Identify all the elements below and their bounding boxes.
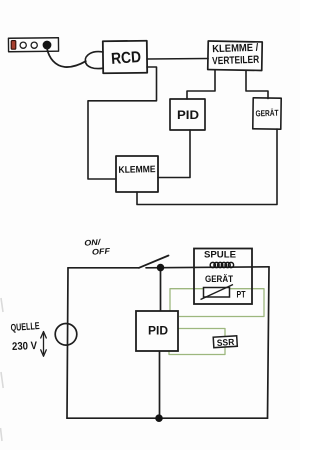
svg-text:ON/: ON/ (84, 238, 101, 248)
svg-text:VERTEILER: VERTEILER (212, 54, 260, 68)
svg-text:OFF: OFF (92, 246, 112, 256)
svg-text:230 V: 230 V (12, 340, 38, 353)
svg-text:QUELLE: QUELLE (10, 321, 40, 334)
svg-text:SPULE: SPULE (204, 250, 236, 260)
svg-text:PID: PID (148, 324, 168, 338)
svg-text:PID: PID (177, 110, 199, 122)
svg-text:PT: PT (237, 289, 246, 299)
svg-text:GERÄT: GERÄT (255, 108, 279, 119)
svg-text:RCD: RCD (111, 49, 142, 68)
svg-text:GERÄT: GERÄT (205, 274, 233, 285)
svg-text:KLEMME: KLEMME (118, 164, 155, 176)
svg-text:SSR: SSR (217, 337, 236, 348)
